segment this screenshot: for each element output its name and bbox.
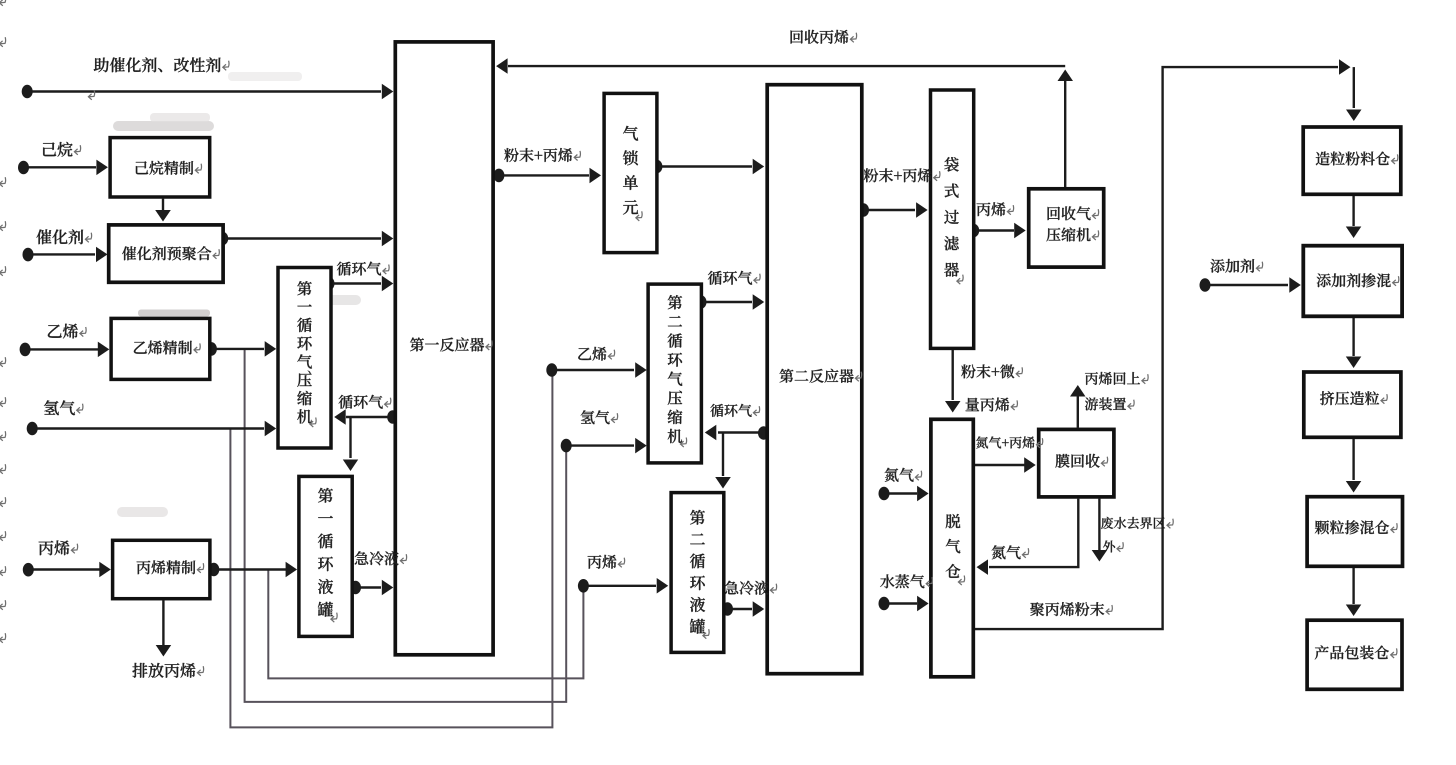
wire propylene branch to 2nd stage (gray bus) (268, 570, 583, 679)
pellet powder silo 造粒粉料仓 (1303, 127, 1401, 194)
wire ethylene branch to 2nd stage (gray bus) (245, 350, 567, 702)
wire degassing silo to membrane unit (975, 457, 1036, 473)
wire steam feed to silo (879, 596, 929, 611)
box label 压缩机 (1046, 228, 1098, 242)
label 废水去界区 (wastewater line1) (1101, 517, 1173, 529)
wire hydrogen branch to 2nd stage (gray bus) (230, 374, 552, 727)
wire compressor2 recycle gas to reactor2 (696, 294, 765, 310)
wire pellet silo to additive blending (1346, 196, 1362, 238)
ethylene purification unit 乙烯精制 (111, 318, 210, 379)
wire propylene vent down (156, 600, 172, 656)
second reactor 第二反应器 (767, 85, 862, 674)
label 氢气 (hydrogen feed) (44, 400, 83, 415)
wire ethylene to compressor2 (546, 362, 646, 378)
label 聚丙烯粉末 (polypropylene powder) (1030, 602, 1112, 616)
wire propylene unit to tank1 (208, 562, 297, 577)
wire nitrogen feed to silo (879, 486, 929, 501)
wire pellet blending to product packaging (1346, 568, 1362, 616)
wire recycle gas branch down to tank1 (343, 417, 358, 471)
wire reactor1 powder+propylene to gas lock (493, 168, 601, 184)
box label 乙烯精制 (134, 341, 200, 355)
box label 第一反应器 (410, 337, 492, 351)
label 氮气 (nitrogen feed) (885, 468, 922, 482)
label 外 (wastewater line2) (1103, 540, 1123, 552)
label 循环气 (recycle gas, reactor2 return) (710, 404, 759, 417)
wire reactor1 recycle gas return (334, 409, 398, 425)
label 循环气 (recycle gas, compressor2 outlet) (708, 271, 760, 285)
label 添加剂 (additive feed) (1211, 259, 1263, 273)
wire bag filter propylene to recovery compressor (968, 223, 1025, 238)
wire hydrogen feed to compressor1 (27, 421, 277, 436)
vertical box label 第一循环气压缩机 (297, 281, 316, 427)
wire drop into pellet powder silo (1346, 67, 1362, 121)
label 丙烯回上 (propylene to upstream line1) (1085, 372, 1148, 385)
label 乙烯 (ethylene feed) (48, 324, 86, 339)
wire ethylene unit to compressor1 (206, 341, 276, 357)
box label 回收气 (1048, 206, 1099, 220)
box label 第二反应器 (780, 369, 862, 383)
wire propylene to tank2 (578, 578, 668, 594)
bag filter 袋式过滤器 (931, 90, 974, 348)
vertical box label 第二循环气压缩机 (668, 295, 687, 447)
vertical box label 气锁单元 (623, 126, 642, 221)
wire catalyst feed (23, 247, 108, 262)
punctuation 、 in 第二循环气压缩机 (679, 390, 682, 393)
wire bag filter down to degassing silo (945, 350, 961, 413)
vertical box label 袋式过滤器 (944, 157, 963, 284)
label 粉末+丙烯 (powder+propylene, reactor2 out) (864, 168, 940, 182)
label 游装置 (propylene to upstream line2) (1085, 397, 1134, 410)
membrane recovery unit 膜回收 (1039, 429, 1114, 497)
wire gas lock to reactor2 (651, 159, 764, 174)
degassing silo 脱气仓 (931, 419, 973, 677)
wire membrane unit nitrogen return to silo (977, 499, 1079, 575)
wire tank1 quench liquid to reactor1 (350, 580, 393, 595)
wire polypropylene powder to pellet silo (975, 59, 1351, 629)
label 粉末+丙烯 (powder+propylene, reactor1 out) (504, 148, 580, 162)
wire hexane unit to prepolymerization (155, 199, 171, 222)
wire tank2 quench liquid to reactor2 (722, 601, 764, 617)
product packaging silo 产品包装仓 (1307, 620, 1402, 689)
label 量丙烯 (powder+trace line2) (966, 398, 1018, 412)
label 氢气 (hydrogen to compressor2) (581, 410, 618, 424)
box label 催化剂预聚合 (122, 246, 219, 260)
wire recovered propylene recycle to reactor1 (496, 58, 1065, 74)
box label 挤压造粒 (1320, 391, 1387, 405)
wire cocatalyst/modifier feed to reactor1 (22, 84, 394, 99)
first recycle liquid tank 第一循环液罐 (299, 476, 352, 636)
additive blending unit 添加剂掺混 (1303, 246, 1402, 317)
wire additive feed (1200, 277, 1301, 293)
second recycle-gas compressor 第二循环气压缩机 (648, 284, 701, 463)
label 急冷液 (quench liquid, tank2) (725, 581, 777, 595)
wire propylene feed (23, 562, 111, 577)
label 循环气 (recycle gas, compressor1 outlet) (337, 262, 389, 276)
label 回收丙烯 (recovered propylene) (791, 30, 857, 44)
label 氮气 (nitrogen return) (992, 545, 1029, 559)
catalyst prepolymerization unit 催化剂预聚合 (109, 225, 223, 282)
wire compressor1 recycle gas to reactor1 (324, 276, 394, 291)
margin paragraph marks (0, 0, 95, 643)
box label 丙烯精制 (137, 560, 204, 574)
wire recovery compressor riser up (1058, 70, 1074, 188)
punctuation 、 in 第一循环气压缩机 (307, 370, 310, 373)
wire hydrogen to compressor2 (561, 438, 647, 454)
first reactor 第一反应器 (395, 42, 493, 655)
second recycle liquid tank 第二循环液罐 (671, 493, 724, 653)
vertical box label 第二循环液罐 (690, 510, 709, 639)
wire recycle gas branch down to tank2 (715, 433, 731, 489)
label 丙烯 (propylene to tank2) (588, 555, 625, 569)
wire membrane unit wastewater down (1092, 499, 1108, 562)
wire membrane unit propylene to upstream (1070, 385, 1086, 428)
vertical box label 第一循环液罐 (318, 488, 337, 622)
box label 膜回收 (1055, 454, 1107, 468)
gas-lock unit 气锁单元 (604, 93, 657, 252)
label 己烷 (hexane feed) (43, 142, 81, 157)
box label 产品包装仓 (1315, 645, 1397, 659)
label 粉末+微 (powder+trace line1) (961, 364, 1022, 378)
propylene purification unit 丙烯精制 (113, 540, 210, 598)
label 丙烯 (propylene to recovery compressor) (977, 202, 1014, 216)
label 排放丙烯 (vented propylene) (132, 663, 203, 678)
wire ethylene feed (20, 342, 110, 358)
label 催化剂 (catalyst feed) (36, 229, 91, 244)
label 助催化剂、改性剂 (cocatalyst/modifier feed) (94, 57, 229, 72)
label 氮气+丙烯 (nitrogen+propylene) (976, 436, 1043, 448)
wire hexane feed (18, 160, 108, 176)
label 丙烯 (propylene feed) (39, 540, 78, 555)
recovery gas compressor 回收气压缩机 (1029, 189, 1104, 267)
label 乙烯 (ethylene to compressor2) (578, 347, 614, 361)
pellet blending silo 颗粒掺混仓 (1307, 497, 1402, 567)
box label 颗粒掺混仓 (1315, 520, 1397, 534)
wire reactor2 powder+propylene to bag filter (858, 202, 928, 218)
wire additive blending to extrusion (1346, 318, 1362, 368)
wire prepolymerization to reactor1 (217, 231, 393, 246)
label 循环气 (recycle gas, reactor1 return) (339, 395, 391, 409)
wire reactor2 recycle gas return (705, 425, 769, 440)
wire extrusion to pellet blending silo (1346, 439, 1362, 493)
vertical box label 脱气仓 (946, 514, 965, 585)
first recycle-gas compressor 第一循环气压缩机 (278, 268, 331, 449)
hexane purification unit 己烷精制 (110, 138, 210, 197)
extrusion pelletizing unit 挤压造粒 (1304, 372, 1401, 437)
box label 造粒粉料仓 (1316, 152, 1398, 166)
label 急冷液 (quench liquid, tank1) (355, 551, 407, 565)
box label 己烷精制 (136, 161, 202, 175)
box label 添加剂掺混 (1317, 273, 1399, 287)
label 水蒸气 (steam feed) (880, 574, 932, 588)
